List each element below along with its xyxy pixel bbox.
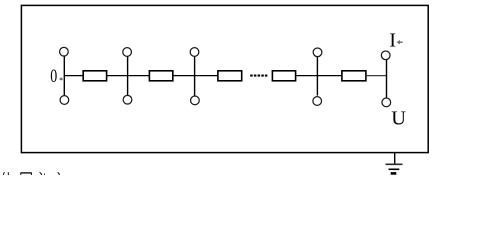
node I label xyxy=(389,29,396,51)
ellipsis dots (continuation of ladder) xyxy=(250,75,267,77)
svg-text:0: 0 xyxy=(50,66,57,87)
output node terminal pair (I / U) xyxy=(381,51,390,107)
svg-text:I: I xyxy=(389,29,396,51)
resistor R4 xyxy=(272,71,295,81)
wire R5 to output node xyxy=(366,75,387,77)
node 2 terminal pair xyxy=(190,48,199,105)
node 0 input terminal pair xyxy=(60,47,69,104)
node 1 terminal pair xyxy=(123,48,132,104)
node 0 label xyxy=(50,66,57,87)
enclosure box xyxy=(21,5,428,152)
node U label xyxy=(391,108,406,130)
wire R1 to R2 through node 1 xyxy=(107,75,150,77)
wire R2 to R3 through node 2 xyxy=(173,75,218,77)
wire R4 to R5 through node n xyxy=(296,75,342,77)
resistor R5 xyxy=(342,71,366,81)
resistor R3 xyxy=(218,71,242,81)
clipped caption text (bottom left, cut off by image edge) xyxy=(3,172,59,175)
arrow at node 0 xyxy=(59,77,63,80)
node n terminal pair xyxy=(313,48,322,105)
arrow at node I xyxy=(397,40,403,44)
ground xyxy=(386,152,403,173)
svg-text:U: U xyxy=(391,108,406,130)
resistor R1 xyxy=(83,71,106,81)
wire node0 to R1 xyxy=(64,75,83,77)
resistor R2 xyxy=(149,71,172,81)
